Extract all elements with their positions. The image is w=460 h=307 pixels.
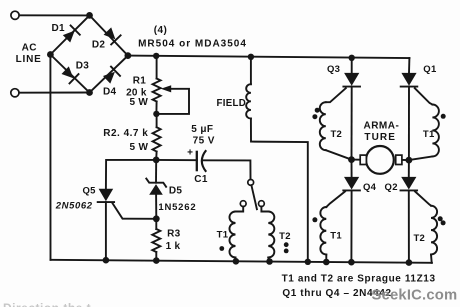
node: Q4 at rail: [348, 259, 355, 266]
label R3: [167, 228, 181, 239]
node: top rail Q3 junction: [349, 55, 355, 61]
note T1 and T2 are Sprague 11Z13: [282, 273, 436, 284]
label T2 lower: [413, 233, 425, 244]
thyristor Q2: [401, 160, 418, 190]
transformer T1 winding lower left: [320, 207, 326, 262]
zener diode D5: [146, 179, 166, 195]
svg-text:T1: T1: [423, 129, 435, 140]
label 75 V: [193, 136, 215, 147]
node: Q2 at rail: [406, 259, 413, 266]
polarity dot T1 lower: [312, 217, 317, 222]
polarity dots T2 primary: [284, 242, 289, 253]
switch contact right: [259, 201, 265, 207]
armature left brush: [360, 155, 366, 164]
label C1: [194, 174, 208, 185]
svg-text:1 k: 1 k: [166, 241, 181, 252]
label 1N5262: [158, 202, 196, 213]
node: armature right junction: [406, 157, 413, 164]
svg-text:T1: T1: [217, 230, 229, 241]
switch blade: [251, 185, 257, 209]
wire: Q4 gate to T1 winding: [326, 192, 345, 208]
label ARMA-: [363, 121, 399, 132]
svg-text:FIELD: FIELD: [217, 98, 246, 109]
svg-text:75 V: 75 V: [193, 136, 215, 147]
label T1 upper: [423, 129, 435, 140]
wire: left node to brush: [352, 159, 360, 161]
svg-text:R1: R1: [133, 75, 147, 86]
armature right brush: [396, 155, 402, 164]
wire: Q3 gate to T2 winding: [326, 88, 346, 102]
node: Q5 cathode at rail: [103, 257, 110, 264]
svg-text:D3: D3: [76, 61, 90, 72]
wire: Q3 cathode to armature left node: [351, 87, 353, 160]
label 1 k: [166, 241, 181, 252]
label T1 primary: [217, 230, 229, 241]
transformer T2 primary winding: [268, 212, 274, 262]
transformer T2 winding lower right: [431, 206, 437, 263]
wire: to R2: [156, 114, 158, 127]
switch contact left: [240, 201, 246, 207]
svg-text:D1: D1: [52, 23, 66, 34]
svg-text:MR504 or MDA3504: MR504 or MDA3504: [138, 39, 247, 50]
wire: bridge diamond edges: [50, 15, 128, 92]
wire: rail down to field coil: [250, 57, 252, 84]
svg-text:AC: AC: [22, 43, 37, 54]
svg-text:T1 and T2 are Sprague 11Z13: T1 and T2 are Sprague 11Z13: [282, 273, 436, 284]
label Q4: [363, 182, 377, 193]
label D3: [76, 61, 90, 72]
label: AC LINE: [22, 43, 37, 54]
node: top rail R1 junction: [153, 53, 159, 59]
wire: Q1 cathode to armature right node: [408, 87, 410, 161]
wire: R2 node down to D5: [155, 160, 157, 183]
watermark SeekIC.com: [372, 287, 458, 303]
wire: Q2 cathode to bottom rail: [408, 190, 410, 262]
label 5 uF: [191, 124, 213, 135]
node: T2 primary at rail: [266, 258, 273, 265]
svg-text:D4: D4: [103, 87, 117, 98]
transformer T1 winding upper right: [409, 104, 439, 160]
diode D3: [62, 66, 79, 83]
svg-text:Q2: Q2: [385, 182, 398, 193]
motor armature: [366, 146, 394, 174]
svg-text:5 μF: 5 μF: [191, 124, 213, 135]
label 2N5062: [55, 200, 93, 211]
diode D2: [104, 27, 121, 44]
node: D5 R3 Q5-gate junction: [153, 215, 160, 222]
label 20 k: [126, 88, 147, 99]
wiper arrow of R1: [159, 85, 189, 114]
svg-text:T2: T2: [413, 233, 425, 244]
label T2 primary: [279, 231, 291, 242]
wire: right node to brush: [403, 159, 409, 161]
node: bridge top vertex: [86, 12, 93, 19]
svg-text:ARMA-: ARMA-: [363, 121, 399, 132]
terminal: AC line bottom: [11, 89, 19, 97]
wire: bottom negative rail: [51, 260, 432, 263]
label MR504 or MDA3504: [138, 39, 247, 50]
svg-text:R2. 4.7 k: R2. 4.7 k: [103, 128, 148, 139]
label R2. 4.7 k: [103, 128, 148, 139]
label Q1: [423, 64, 437, 75]
wire: right contact to T2 primary: [261, 207, 268, 212]
diode D1: [63, 26, 80, 43]
label FIELD: [217, 98, 246, 109]
svg-text:5 W: 5 W: [129, 97, 148, 108]
polarity dots T2 upper: [312, 108, 319, 120]
node: right vertical at bottom rail: [305, 259, 311, 265]
svg-text:D2: D2: [92, 39, 106, 50]
svg-text:Q3: Q3: [327, 64, 340, 75]
wire: C1 right plate to switch: [202, 160, 251, 178]
svg-text:SeekIC.com: SeekIC.com: [372, 287, 458, 303]
label D2: [92, 39, 106, 50]
wire: R2 node to C1 left plate: [156, 159, 197, 161]
wire: top terminal to bridge top vertex: [19, 14, 89, 16]
wire: rail to R1: [156, 56, 158, 79]
wire: Q1 gate to T1 winding: [415, 88, 433, 104]
label + of C1: [187, 148, 193, 159]
label (4): [154, 25, 167, 36]
node: T1 primary at rail: [233, 258, 240, 265]
label TURE: [364, 132, 396, 143]
wire: Q4 cathode to bottom rail: [350, 190, 352, 262]
svg-text:LINE: LINE: [16, 54, 42, 65]
label 5 W: [129, 97, 148, 108]
label D1: [52, 23, 66, 34]
wire: Q5 cathode to bottom rail: [105, 202, 107, 260]
label: AC LINE line2: [16, 54, 42, 65]
switch pivot contact: [248, 180, 254, 186]
node: bridge left vertex: [47, 51, 54, 58]
label 5 W of R2: [130, 142, 149, 153]
wire: bottom terminal to bridge bottom vertex: [19, 92, 89, 94]
polarity dot T1 primary: [219, 246, 224, 251]
svg-text:+: +: [187, 148, 193, 159]
label T2 upper: [330, 129, 342, 140]
svg-text:T1: T1: [330, 230, 342, 241]
wire: left negative vertical: [49, 55, 51, 260]
label Q3: [327, 64, 340, 75]
thyristor Q3: [343, 58, 360, 87]
svg-text:C1: C1: [194, 174, 208, 185]
node: R3 at rail: [153, 257, 160, 264]
label R1: [133, 75, 147, 86]
node: top rail field junction: [248, 54, 254, 60]
node: T1 lower at rail: [323, 259, 330, 266]
note Q1 thru Q4: [282, 288, 391, 299]
label T1 lower: [330, 230, 342, 241]
label D5: [169, 185, 183, 196]
polarity dots T2 lower: [438, 216, 446, 225]
svg-text:(4): (4): [154, 25, 167, 36]
node: bridge bottom vertex: [86, 89, 93, 96]
svg-text:T2: T2: [279, 231, 291, 242]
node: armature left junction: [348, 156, 355, 163]
clipped caption fragment: [3, 301, 91, 307]
resistor R2 (4.7 k): [153, 127, 161, 160]
capacitor C1: [197, 150, 206, 172]
wire: left contact to T1 primary: [236, 207, 244, 212]
wire: Q5 gate: [113, 203, 157, 218]
svg-text:2N5062: 2N5062: [55, 200, 93, 211]
wire: gate node to R3: [155, 219, 157, 229]
svg-text:1N5262: 1N5262: [158, 202, 196, 213]
resistor R1 (20 k rheostat): [153, 79, 161, 114]
svg-text:Q1: Q1: [423, 64, 437, 75]
svg-text:TURE: TURE: [364, 132, 396, 143]
transformer T1 primary winding: [229, 212, 235, 262]
terminal: AC line top: [11, 11, 19, 19]
node: R1-R2 junction: [153, 111, 159, 117]
svg-text:5 W: 5 W: [130, 142, 149, 153]
resistor R3 (1 k): [152, 229, 160, 261]
thyristor Q5: [98, 189, 114, 202]
wire: top positive rail: [128, 56, 410, 59]
node: bridge right vertex: [125, 52, 132, 59]
inductor FIELD winding: [246, 84, 251, 118]
wire: D5 anode to gate node: [155, 195, 157, 219]
label Q2: [385, 182, 398, 193]
label D4: [103, 87, 117, 98]
svg-text:R3: R3: [167, 228, 181, 239]
svg-text:T2: T2: [330, 129, 342, 140]
wire: field bottom to right vertical: [251, 119, 308, 262]
svg-text:Q5: Q5: [82, 185, 96, 196]
svg-text:Q4: Q4: [363, 182, 377, 193]
polarity dot T1 upper: [441, 114, 446, 119]
svg-text:D5: D5: [169, 185, 183, 196]
label Q5: [82, 185, 96, 196]
node: R2 bottom junction: [153, 157, 160, 164]
wire: R2 node left and down to Q5 anode: [106, 160, 156, 189]
svg-text:Direction the t: Direction the t: [3, 301, 91, 307]
thyristor Q1: [401, 58, 418, 87]
wire: Q2 gate to T2 winding: [415, 192, 431, 206]
diode D4: [103, 67, 120, 84]
transformer T2 winding upper left: [320, 102, 352, 159]
thyristor Q4: [343, 160, 360, 191]
